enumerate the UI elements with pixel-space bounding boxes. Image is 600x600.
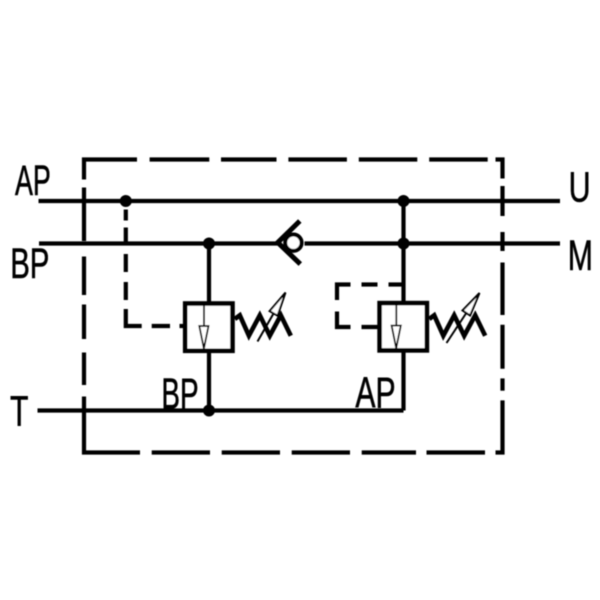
svg-text:M: M	[568, 232, 593, 280]
svg-text:BP: BP	[161, 370, 198, 419]
svg-text:AP: AP	[15, 157, 51, 205]
svg-text:T: T	[10, 387, 28, 435]
svg-text:AP: AP	[355, 368, 395, 417]
svg-text:U: U	[569, 164, 591, 212]
svg-text:BP: BP	[10, 240, 49, 288]
